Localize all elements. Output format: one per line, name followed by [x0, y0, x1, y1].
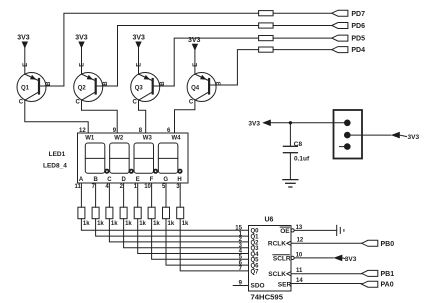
svg-text:G: G [163, 177, 168, 183]
resistor inline R-PD6 [259, 23, 274, 28]
inversion bubble pin 10 [291, 256, 294, 259]
svg-text:SCLK: SCLK [268, 271, 286, 278]
svg-text:PA0: PA0 [381, 282, 394, 289]
svg-text:B: B [160, 81, 166, 86]
wire B to Q1 [96, 219, 249, 236]
wire Q3 collector to W3 [139, 100, 146, 133]
wire A to resistor [80, 183, 82, 207]
svg-text:3V3: 3V3 [248, 121, 260, 128]
svg-text:Q1: Q1 [21, 85, 30, 91]
svg-text:1k: 1k [153, 221, 160, 227]
svg-text:3V3: 3V3 [75, 35, 88, 42]
svg-text:2: 2 [120, 184, 124, 190]
wire B to resistor [95, 183, 97, 207]
svg-text:B: B [216, 81, 222, 86]
svg-text:RCLK: RCLK [268, 241, 286, 248]
svg-text:B: B [46, 81, 52, 86]
J1 pin 1 [344, 120, 351, 127]
svg-text:C8: C8 [294, 141, 303, 148]
IC U6 74HC595 [249, 226, 292, 292]
svg-text:PB0: PB0 [381, 241, 395, 248]
svg-text:3V3: 3V3 [345, 256, 357, 263]
svg-text:1k: 1k [125, 221, 132, 227]
svg-text:H: H [177, 177, 181, 183]
svg-text:Q2: Q2 [78, 85, 87, 91]
digit cell 3 [134, 143, 154, 173]
power 3V3 above Q4 [188, 37, 201, 74]
power 3V3 above Q2 [75, 35, 88, 75]
wire G to resistor [165, 183, 167, 207]
svg-text:C: C [107, 177, 112, 183]
wire net PD4 [237, 50, 258, 85]
J1 pin3 stub [340, 146, 345, 148]
transistor Q4 [187, 63, 237, 106]
resistor 1k (D) [120, 207, 127, 219]
svg-text:SER: SER [278, 281, 292, 288]
power 3V3 arrow at SCLR [333, 255, 342, 262]
wire pin13 to ground [294, 229, 337, 231]
pin 9 stub SDO [233, 285, 248, 287]
wire Q4 collector to W4 [175, 100, 195, 133]
resistor 1k (E) [134, 207, 141, 219]
svg-text:1k: 1k [97, 221, 104, 227]
wire E to Q4 [138, 219, 249, 254]
svg-text:U6: U6 [265, 217, 274, 224]
svg-text:E: E [193, 63, 199, 67]
svg-text:11: 11 [296, 268, 303, 274]
svg-text:3V3: 3V3 [408, 134, 420, 141]
resistor inline R-PD4 [259, 47, 274, 52]
wire E to resistor [137, 183, 139, 207]
svg-text:E: E [136, 177, 140, 183]
svg-text:1k: 1k [168, 221, 175, 227]
resistor inline R-PD5 [259, 36, 274, 41]
connector PB0 [362, 240, 378, 246]
wire pin10 to 3V3 [294, 257, 333, 259]
svg-text:3V3: 3V3 [133, 35, 146, 42]
svg-text:A: A [79, 177, 84, 183]
connector PD7 [332, 10, 348, 16]
wire J1 pin2 to 3V3 right [347, 134, 391, 136]
power 3V3 right arrow [391, 132, 400, 139]
wire A to Q0 [81, 219, 248, 231]
resistor 1k (H) [177, 207, 184, 219]
svg-text:W1: W1 [85, 135, 95, 141]
wire Q1 collector to W1 [25, 100, 88, 133]
wire F to Q5 [152, 219, 249, 260]
svg-text:W3: W3 [143, 135, 153, 141]
svg-text:Q3: Q3 [135, 85, 144, 91]
svg-text:10: 10 [144, 184, 151, 190]
wire pin14 to PA0 [291, 283, 362, 285]
wire C to resistor [108, 183, 110, 207]
digit cell 2 [110, 143, 129, 173]
wire net PD5 [174, 38, 258, 86]
svg-text:F: F [150, 177, 154, 183]
svg-text:LED1: LED1 [49, 151, 66, 158]
svg-text:1: 1 [134, 184, 138, 190]
svg-text:D: D [122, 177, 127, 183]
svg-text:1k: 1k [182, 221, 189, 227]
connector PA0 [362, 281, 378, 287]
svg-text:3: 3 [176, 184, 180, 190]
svg-text:74HC595: 74HC595 [251, 293, 284, 302]
wire F to resistor [151, 183, 153, 207]
svg-text:PB1: PB1 [381, 271, 395, 278]
svg-text:0.1uf: 0.1uf [294, 156, 310, 163]
wire net PD7 top [64, 13, 259, 86]
transistor Q2 [74, 63, 118, 106]
connector PB1 [362, 270, 378, 276]
wire D to Q3 [124, 219, 249, 248]
wire C8 to ground [289, 153, 291, 180]
power 3V3 above Q1 [17, 35, 30, 75]
svg-text:PD6: PD6 [351, 23, 365, 30]
wire C to Q2 [109, 219, 248, 242]
svg-text:PD7: PD7 [351, 11, 365, 18]
svg-text:C: C [76, 100, 81, 106]
resistor 1k (A) [78, 207, 85, 219]
connector PD4 [332, 47, 348, 53]
ground (rotated) at pin13 [336, 225, 338, 235]
capacitor C8 [289, 123, 291, 147]
wire H to resistor [179, 183, 181, 207]
svg-text:Q4: Q4 [191, 85, 200, 91]
svg-text:PD4: PD4 [351, 47, 365, 54]
decimal point 4 [177, 169, 182, 174]
wire 3V3 to connector J1 [271, 122, 348, 124]
decimal point 1 [104, 169, 109, 174]
power 3V3 above Q3 [133, 35, 146, 75]
svg-text:7: 7 [92, 184, 96, 190]
resistor 1k (B) [92, 207, 99, 219]
svg-text:LED8_4: LED8_4 [43, 162, 67, 169]
connector block J1 [334, 110, 363, 159]
transistor Q1 [17, 63, 64, 106]
svg-text:12: 12 [297, 238, 304, 244]
svg-text:SCLR: SCLR [273, 255, 291, 262]
svg-text:Q7: Q7 [251, 269, 260, 275]
svg-text:1k: 1k [139, 221, 146, 227]
J1 pin 3 [344, 143, 351, 150]
decimal point 3 [153, 169, 158, 174]
connector PD6 [332, 23, 348, 29]
svg-text:W2: W2 [114, 135, 124, 141]
svg-text:B: B [103, 81, 109, 86]
connector PD5 [332, 35, 348, 41]
svg-text:5: 5 [162, 184, 166, 190]
svg-text:4: 4 [105, 184, 109, 190]
wire G to Q6 [166, 219, 249, 265]
svg-text:11: 11 [75, 184, 82, 190]
svg-text:E: E [23, 63, 29, 67]
svg-text:E: E [80, 63, 86, 67]
resistor 1k (C) [106, 207, 113, 219]
resistor 1k (F) [148, 207, 155, 219]
transistor Q3 [131, 63, 175, 106]
resistor 1k (G) [163, 207, 170, 219]
svg-text:OE: OE [280, 228, 290, 235]
svg-text:1k: 1k [111, 221, 118, 227]
ground below C8 [283, 179, 298, 181]
svg-text:1k: 1k [83, 221, 90, 227]
decimal point 2 [129, 169, 134, 174]
svg-text:PD5: PD5 [351, 36, 365, 43]
wire pin12 to PB0 [291, 242, 362, 244]
digit cell 4 [158, 143, 178, 173]
wire pin11 to PB1 [291, 273, 362, 275]
junction node [289, 121, 292, 124]
svg-text:3V3: 3V3 [188, 37, 201, 44]
svg-text:10: 10 [296, 253, 303, 259]
J1 pin 2 [344, 132, 351, 139]
svg-text:C: C [19, 100, 24, 106]
resistor inline R-PD7 [259, 11, 274, 16]
wire Q2 collector to W2 [82, 100, 118, 133]
wire net PD6 [118, 26, 259, 87]
svg-text:E: E [137, 63, 143, 67]
svg-text:SDO: SDO [251, 283, 265, 290]
svg-text:C: C [189, 100, 194, 106]
svg-text:3V3: 3V3 [17, 35, 30, 42]
svg-text:13: 13 [296, 225, 303, 231]
svg-text:B: B [94, 177, 99, 183]
svg-text:14: 14 [296, 278, 303, 284]
LED display LED1 box [78, 133, 189, 183]
svg-text:W4: W4 [172, 135, 182, 141]
digit cell 1 [85, 143, 105, 173]
svg-text:C: C [133, 100, 138, 106]
inversion bubble pin 13 [291, 229, 294, 232]
wire D to resistor [123, 183, 125, 207]
wire H to Q7 [180, 219, 248, 271]
